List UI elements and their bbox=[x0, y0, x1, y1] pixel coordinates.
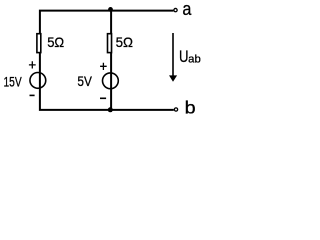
svg-text:a: a bbox=[182, 0, 192, 19]
svg-text:b: b bbox=[185, 98, 196, 118]
svg-text:U: U bbox=[179, 47, 189, 66]
svg-text:5V: 5V bbox=[77, 73, 92, 89]
svg-text:5Ω: 5Ω bbox=[47, 34, 64, 50]
svg-text:5Ω: 5Ω bbox=[116, 34, 133, 50]
svg-text:15V: 15V bbox=[4, 74, 23, 90]
svg-text:ab: ab bbox=[188, 54, 201, 66]
